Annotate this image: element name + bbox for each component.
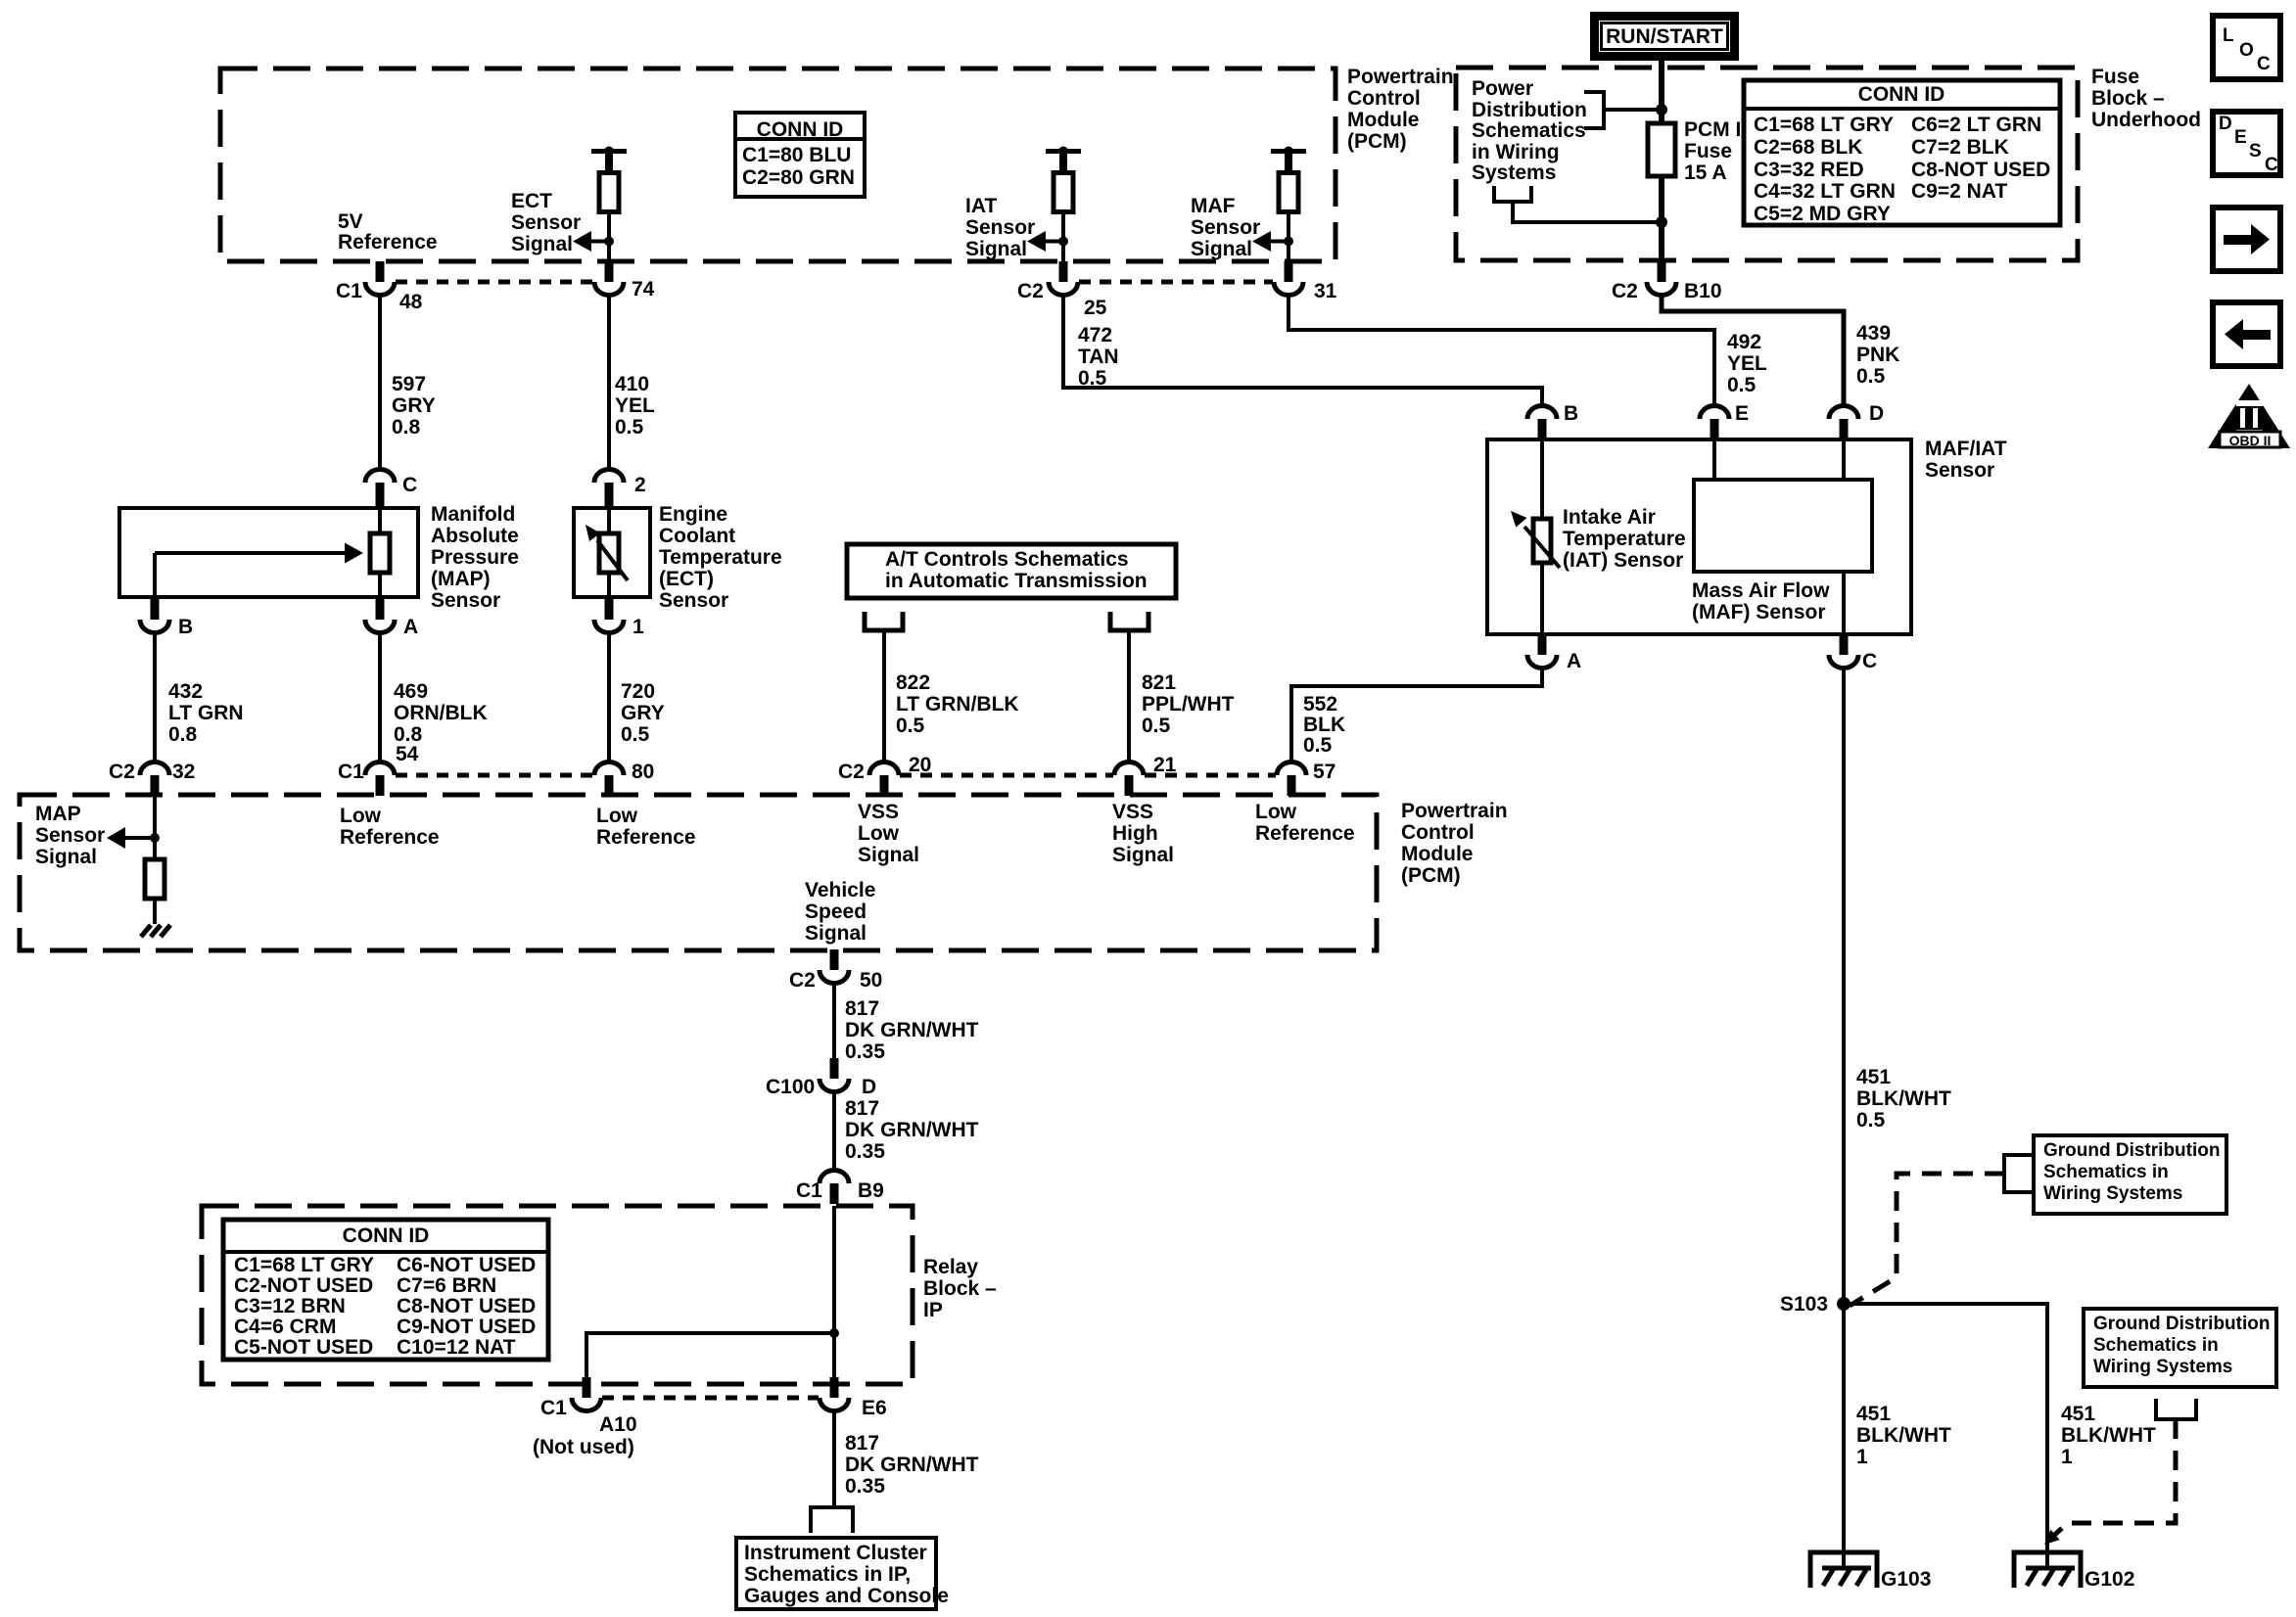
svg-text:0.5: 0.5 <box>621 723 650 746</box>
svg-text:Engine: Engine <box>659 503 727 526</box>
svg-text:Intake Air: Intake Air <box>1563 506 1656 529</box>
svg-text:C7=6 BRN: C7=6 BRN <box>397 1274 496 1297</box>
svg-text:C: C <box>402 474 417 496</box>
svg-text:432: 432 <box>168 680 203 703</box>
svg-text:C5-NOT USED: C5-NOT USED <box>234 1336 373 1359</box>
svg-text:C: C <box>1862 650 1877 672</box>
svg-text:Sensor: Sensor <box>1925 459 1994 482</box>
svg-text:Schematics in: Schematics in <box>2043 1162 2169 1182</box>
svg-text:Pressure: Pressure <box>431 546 519 569</box>
svg-text:Sensor: Sensor <box>431 589 500 612</box>
svg-text:Low: Low <box>340 805 382 827</box>
svg-text:15 A: 15 A <box>1684 162 1727 184</box>
svg-text:0.8: 0.8 <box>168 723 198 746</box>
svg-text:TAN: TAN <box>1078 346 1119 368</box>
svg-text:A10: A10 <box>599 1413 637 1436</box>
svg-text:31: 31 <box>1314 280 1337 302</box>
svg-text:80: 80 <box>632 761 654 783</box>
svg-text:PPL/WHT: PPL/WHT <box>1142 693 1235 716</box>
svg-text:LT GRN/BLK: LT GRN/BLK <box>896 693 1019 716</box>
svg-text:1: 1 <box>1856 1446 1868 1468</box>
svg-text:ECT: ECT <box>511 190 552 212</box>
svg-text:0.5: 0.5 <box>1856 1109 1886 1132</box>
svg-text:0.5: 0.5 <box>1078 367 1107 390</box>
svg-text:Signal: Signal <box>1112 844 1174 866</box>
svg-text:410: 410 <box>615 373 649 395</box>
svg-text:BLK/WHT: BLK/WHT <box>1856 1087 1951 1110</box>
svg-text:Signal: Signal <box>511 233 573 255</box>
svg-text:(Not used): (Not used) <box>533 1436 634 1458</box>
svg-text:822: 822 <box>896 671 930 694</box>
svg-text:in Wiring: in Wiring <box>1472 141 1560 163</box>
svg-text:in Automatic Transmission: in Automatic Transmission <box>885 570 1148 592</box>
svg-text:ORN/BLK: ORN/BLK <box>394 702 488 724</box>
svg-text:Signal: Signal <box>805 922 867 945</box>
svg-text:Reference: Reference <box>596 826 696 849</box>
svg-text:(PCM): (PCM) <box>1401 864 1461 887</box>
svg-text:OBD II: OBD II <box>2229 433 2272 448</box>
svg-text:817: 817 <box>845 997 879 1020</box>
svg-text:Power: Power <box>1472 77 1533 100</box>
svg-text:C2=68 BLK: C2=68 BLK <box>1754 136 1862 159</box>
svg-text:2: 2 <box>634 474 646 496</box>
svg-text:G102: G102 <box>2085 1568 2134 1591</box>
svg-text:A: A <box>403 616 418 638</box>
svg-text:C1=68 LT GRY: C1=68 LT GRY <box>234 1254 374 1276</box>
svg-text:Block –: Block – <box>2091 87 2165 110</box>
svg-text:PNK: PNK <box>1856 344 1899 366</box>
svg-text:492: 492 <box>1727 331 1761 353</box>
svg-text:720: 720 <box>621 680 655 703</box>
svg-text:Vehicle: Vehicle <box>805 879 875 901</box>
svg-text:Ground Distribution: Ground Distribution <box>2093 1314 2270 1334</box>
svg-text:CONN ID: CONN ID <box>343 1224 430 1247</box>
svg-text:817: 817 <box>845 1432 879 1455</box>
svg-text:C2: C2 <box>1017 280 1044 302</box>
svg-text:0.5: 0.5 <box>1303 734 1333 757</box>
svg-text:552: 552 <box>1303 693 1337 716</box>
svg-text:B9: B9 <box>858 1179 884 1202</box>
svg-text:C6-NOT USED: C6-NOT USED <box>397 1254 536 1276</box>
svg-text:PCM I: PCM I <box>1684 118 1741 141</box>
svg-text:C9-NOT USED: C9-NOT USED <box>397 1316 536 1338</box>
svg-text:Fuse: Fuse <box>2091 66 2139 88</box>
svg-text:Sensor: Sensor <box>965 216 1035 239</box>
svg-text:VSS: VSS <box>1112 801 1153 823</box>
svg-text:451: 451 <box>1856 1066 1891 1088</box>
svg-text:Schematics in: Schematics in <box>2093 1335 2219 1356</box>
svg-text:RUN/START: RUN/START <box>1606 25 1723 48</box>
svg-text:MAF/IAT: MAF/IAT <box>1925 438 2007 460</box>
svg-text:0.5: 0.5 <box>615 416 644 439</box>
svg-text:C1: C1 <box>338 761 364 783</box>
svg-text:C1=68 LT GRY: C1=68 LT GRY <box>1754 114 1894 136</box>
svg-text:B: B <box>178 616 193 638</box>
svg-text:1: 1 <box>2061 1446 2073 1468</box>
svg-text:DK GRN/WHT: DK GRN/WHT <box>845 1019 979 1041</box>
svg-text:GRY: GRY <box>621 702 665 724</box>
svg-text:A/T Controls Schematics: A/T Controls Schematics <box>885 548 1129 571</box>
svg-text:High: High <box>1112 822 1158 845</box>
svg-text:CONN ID: CONN ID <box>1858 83 1945 106</box>
svg-text:54: 54 <box>396 743 419 765</box>
svg-text:C2-NOT USED: C2-NOT USED <box>234 1274 373 1297</box>
svg-text:1: 1 <box>633 616 644 638</box>
svg-text:C100: C100 <box>766 1076 815 1098</box>
svg-text:817: 817 <box>845 1097 879 1120</box>
svg-text:21: 21 <box>1153 754 1177 776</box>
svg-text:439: 439 <box>1856 322 1891 345</box>
svg-text:D: D <box>2219 114 2232 134</box>
svg-text:0.5: 0.5 <box>1856 365 1886 388</box>
svg-text:Reference: Reference <box>338 231 438 254</box>
svg-text:821: 821 <box>1142 671 1176 694</box>
svg-text:C2: C2 <box>838 761 865 783</box>
svg-text:S103: S103 <box>1780 1293 1828 1316</box>
svg-text:20: 20 <box>909 754 931 776</box>
svg-text:C6=2 LT GRN: C6=2 LT GRN <box>1911 114 2041 136</box>
svg-text:Gauges and Console: Gauges and Console <box>744 1585 949 1607</box>
svg-text:25: 25 <box>1084 297 1107 319</box>
svg-text:0.5: 0.5 <box>1142 715 1171 737</box>
svg-text:C4=32 LT GRN: C4=32 LT GRN <box>1754 180 1896 203</box>
svg-text:Sensor: Sensor <box>659 589 728 612</box>
svg-text:E: E <box>1735 402 1749 425</box>
svg-text:0.5: 0.5 <box>896 715 925 737</box>
svg-text:D: D <box>1869 402 1884 425</box>
svg-text:B10: B10 <box>1684 280 1722 302</box>
svg-text:C8-NOT USED: C8-NOT USED <box>1911 159 2050 181</box>
svg-text:5V: 5V <box>338 210 363 233</box>
svg-text:Low: Low <box>1255 801 1297 823</box>
svg-text:597: 597 <box>392 373 426 395</box>
svg-text:Fuse: Fuse <box>1684 140 1732 162</box>
svg-text:451: 451 <box>2061 1403 2095 1425</box>
svg-text:BLK/WHT: BLK/WHT <box>2061 1424 2156 1447</box>
svg-text:Signal: Signal <box>35 846 97 868</box>
svg-text:C2: C2 <box>1612 280 1638 302</box>
svg-text:0.35: 0.35 <box>845 1140 885 1163</box>
svg-text:A: A <box>1567 650 1581 672</box>
svg-text:Instrument Cluster: Instrument Cluster <box>744 1542 927 1564</box>
svg-text:C1: C1 <box>336 280 362 302</box>
svg-text:Systems: Systems <box>1472 162 1556 184</box>
svg-text:DK GRN/WHT: DK GRN/WHT <box>845 1454 979 1476</box>
svg-text:(MAF) Sensor: (MAF) Sensor <box>1692 601 1826 624</box>
svg-text:Sensor: Sensor <box>35 824 105 847</box>
svg-text:S: S <box>2249 141 2262 162</box>
svg-text:D: D <box>862 1076 876 1098</box>
svg-text:Reference: Reference <box>1255 822 1355 845</box>
svg-text:Temperature: Temperature <box>1563 528 1686 550</box>
svg-text:C: C <box>2265 155 2278 175</box>
svg-text:(PCM): (PCM) <box>1347 130 1407 153</box>
svg-text:C1: C1 <box>796 1179 822 1202</box>
svg-text:Ground Distribution: Ground Distribution <box>2043 1140 2220 1161</box>
svg-text:Temperature: Temperature <box>659 546 782 569</box>
svg-text:74: 74 <box>632 278 655 300</box>
svg-text:IAT: IAT <box>965 195 997 217</box>
svg-text:0.35: 0.35 <box>845 1040 885 1063</box>
svg-text:Signal: Signal <box>858 844 919 866</box>
svg-text:YEL: YEL <box>615 394 655 417</box>
svg-text:472: 472 <box>1078 324 1112 346</box>
svg-text:VSS: VSS <box>858 801 899 823</box>
svg-text:C9=2 NAT: C9=2 NAT <box>1911 180 2007 203</box>
svg-text:Control: Control <box>1401 821 1475 844</box>
svg-text:Reference: Reference <box>340 826 440 849</box>
svg-text:Speed: Speed <box>805 901 867 923</box>
svg-text:Sensor: Sensor <box>511 211 581 234</box>
svg-text:451: 451 <box>1856 1403 1891 1425</box>
svg-text:Coolant: Coolant <box>659 525 735 547</box>
svg-text:O: O <box>2239 40 2254 61</box>
svg-text:C2: C2 <box>789 969 816 992</box>
svg-text:LT GRN: LT GRN <box>168 702 244 724</box>
svg-text:Absolute: Absolute <box>431 525 519 547</box>
svg-text:MAP: MAP <box>35 803 81 825</box>
svg-text:YEL: YEL <box>1727 352 1767 375</box>
svg-text:Schematics in IP,: Schematics in IP, <box>744 1563 911 1586</box>
svg-text:G103: G103 <box>1881 1568 1931 1591</box>
svg-text:Relay: Relay <box>923 1256 978 1278</box>
svg-text:E: E <box>2234 127 2247 148</box>
svg-text:Low: Low <box>858 822 900 845</box>
svg-text:Control: Control <box>1347 87 1421 110</box>
svg-text:0.35: 0.35 <box>845 1475 885 1498</box>
svg-text:GRY: GRY <box>392 394 436 417</box>
svg-text:BLK: BLK <box>1303 714 1345 736</box>
svg-text:Sensor: Sensor <box>1191 216 1260 239</box>
svg-text:Wiring Systems: Wiring Systems <box>2093 1357 2232 1377</box>
svg-text:0.8: 0.8 <box>392 416 421 439</box>
svg-text:C1: C1 <box>540 1397 567 1419</box>
svg-text:C3=32 RED: C3=32 RED <box>1754 159 1864 181</box>
svg-text:Powertrain: Powertrain <box>1347 66 1454 88</box>
svg-text:B: B <box>1564 402 1578 425</box>
svg-text:(MAP): (MAP) <box>431 568 491 590</box>
svg-text:Module: Module <box>1347 109 1420 131</box>
svg-text:48: 48 <box>399 291 423 313</box>
svg-text:Module: Module <box>1401 843 1474 865</box>
svg-text:Wiring Systems: Wiring Systems <box>2043 1183 2182 1204</box>
svg-text:Mass Air Flow: Mass Air Flow <box>1692 579 1830 602</box>
svg-text:C8-NOT USED: C8-NOT USED <box>397 1295 536 1317</box>
svg-text:(IAT) Sensor: (IAT) Sensor <box>1563 549 1683 572</box>
svg-text:C5=2 MD GRY: C5=2 MD GRY <box>1754 203 1891 225</box>
svg-text:Schematics: Schematics <box>1472 119 1586 142</box>
svg-text:0.5: 0.5 <box>1727 374 1757 396</box>
svg-text:C4=6 CRM: C4=6 CRM <box>234 1316 336 1338</box>
svg-text:Underhood: Underhood <box>2091 109 2201 131</box>
svg-text:IP: IP <box>923 1299 943 1321</box>
svg-text:Signal: Signal <box>965 238 1027 260</box>
svg-text:L: L <box>2223 25 2234 46</box>
svg-text:Powertrain: Powertrain <box>1401 800 1508 822</box>
svg-text:469: 469 <box>394 680 428 703</box>
svg-text:C3=12 BRN: C3=12 BRN <box>234 1295 346 1317</box>
svg-text:DK GRN/WHT: DK GRN/WHT <box>845 1119 979 1141</box>
svg-text:Distribution: Distribution <box>1472 99 1587 121</box>
svg-text:C2=80 GRN: C2=80 GRN <box>742 166 855 189</box>
svg-text:57: 57 <box>1313 761 1335 783</box>
svg-text:BLK/WHT: BLK/WHT <box>1856 1424 1951 1447</box>
svg-text:C10=12 NAT: C10=12 NAT <box>397 1336 516 1359</box>
svg-text:MAF: MAF <box>1191 195 1236 217</box>
svg-text:Manifold: Manifold <box>431 503 515 526</box>
svg-text:Low: Low <box>596 805 638 827</box>
svg-text:E6: E6 <box>862 1397 887 1419</box>
svg-text:C: C <box>2257 54 2271 74</box>
svg-text:50: 50 <box>860 969 882 992</box>
svg-text:Block –: Block – <box>923 1277 997 1300</box>
svg-text:(ECT): (ECT) <box>659 568 714 590</box>
svg-text:C7=2 BLK: C7=2 BLK <box>1911 136 2009 159</box>
svg-text:Signal: Signal <box>1191 238 1252 260</box>
svg-text:32: 32 <box>172 761 195 783</box>
svg-text:C2: C2 <box>109 761 135 783</box>
svg-text:CONN ID: CONN ID <box>757 118 844 141</box>
svg-text:C1=80 BLU: C1=80 BLU <box>742 144 851 166</box>
